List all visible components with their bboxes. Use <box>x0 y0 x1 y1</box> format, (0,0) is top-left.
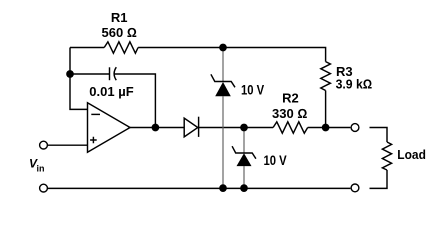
junction dot bottom rail zener 2 <box>240 184 248 192</box>
resistor Load <box>382 142 391 170</box>
wire R3 bottom to output node <box>325 91 327 128</box>
svg-text:R2: R2 <box>282 91 299 106</box>
zener diode D3 <box>232 146 256 166</box>
svg-text:R1: R1 <box>111 10 128 25</box>
wire zener line 1 upper <box>222 48 224 82</box>
resistor R2 <box>273 122 308 133</box>
wire top rail left <box>70 47 104 49</box>
wire diode cathode to node B <box>199 127 244 129</box>
wire R2 to output node <box>308 127 326 129</box>
wire capacitor branch right down to output node <box>114 74 155 128</box>
resistor R1 <box>104 42 138 53</box>
diode D1 <box>184 117 198 137</box>
terminal output bottom <box>351 184 359 192</box>
wire zener line 2 lower <box>243 166 245 188</box>
svg-text:560 Ω: 560 Ω <box>102 25 137 40</box>
svg-text:10 V: 10 V <box>241 83 264 98</box>
junction dot node B <box>240 124 248 132</box>
terminal Vin top <box>40 141 48 149</box>
junction dot top rail / zener line 1 <box>219 44 227 52</box>
wire bottom rail <box>48 187 350 189</box>
wire zener line 1 lower <box>222 96 224 188</box>
junction dot output node <box>322 124 330 132</box>
wire left vertical to inverting input <box>70 48 88 110</box>
junction dot capacitor tap <box>66 70 74 78</box>
wire load bracket bottom <box>370 170 388 188</box>
wire op-amp output <box>130 127 184 129</box>
terminal Vin bottom <box>40 184 48 192</box>
svg-text:Load: Load <box>397 147 426 162</box>
terminal output top <box>351 124 359 132</box>
resistor R3 <box>321 62 331 91</box>
svg-text:10 V: 10 V <box>264 153 287 168</box>
wire node B to R2 <box>244 127 273 129</box>
op-amp U1 <box>88 103 131 153</box>
wire noninverting input <box>48 144 88 146</box>
wire capacitor branch left <box>70 73 110 75</box>
wire top rail right <box>138 48 326 62</box>
svg-text:330 Ω: 330 Ω <box>272 106 307 121</box>
junction dot bottom rail zener 1 <box>219 184 227 192</box>
zener diode D2 <box>211 74 235 96</box>
svg-text:3.9 kΩ: 3.9 kΩ <box>336 77 373 92</box>
wire zener line 2 upper <box>243 128 245 154</box>
wire output node to terminal <box>326 127 351 129</box>
svg-text:0.01 µF: 0.01 µF <box>89 84 133 99</box>
wire load bracket top <box>370 128 388 143</box>
svg-text:in: in <box>37 163 45 173</box>
junction dot op-amp output node <box>152 124 160 132</box>
capacitor C1 <box>109 67 111 80</box>
